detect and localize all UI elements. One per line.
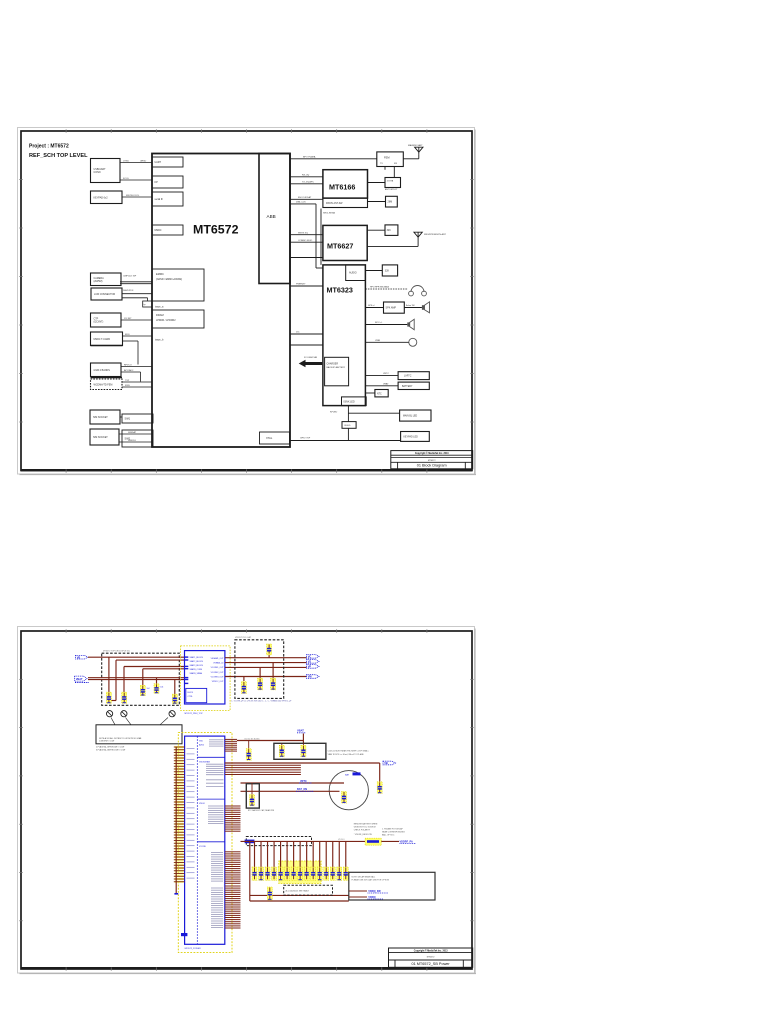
svg-text:MT6323: MT6323 <box>327 286 353 295</box>
svg-text:MSDC T-CARD: MSDC T-CARD <box>94 338 111 341</box>
off-page connector VDDIO out <box>349 890 388 893</box>
port box SENSOR IF <box>152 192 183 206</box>
svg-text:3.PLACE AL_MMTSCODE < 0.5W: 3.PLACE AL_MMTSCODE < 0.5W <box>96 748 125 751</box>
capacitor CB3 <box>265 867 270 880</box>
wire U1 to MT6323 b <box>290 332 323 334</box>
label VRTC <box>299 780 312 783</box>
svg-text:FEM: FEM <box>384 155 389 159</box>
page 2 title block <box>389 948 473 967</box>
connector keypad block <box>91 191 123 204</box>
svg-text:SIM1: SIM1 <box>125 418 131 421</box>
off-page connector VPROC out <box>307 665 320 669</box>
resistor box R LED <box>342 422 356 429</box>
port box SIM1 <box>122 414 153 423</box>
connector RF FEM dashed <box>91 378 123 390</box>
cap values dashed box <box>284 885 333 895</box>
wire J1 to KP <box>120 178 152 180</box>
svg-text:VRTC: VRTC <box>300 780 307 783</box>
svg-text:I2C INT: I2C INT <box>124 318 132 320</box>
wire cap bank drop 6 <box>286 841 288 868</box>
wire U1 to MT6323 a <box>290 284 323 286</box>
wire ABB to FEM <box>290 155 377 159</box>
connector SIM1 socket <box>90 410 120 424</box>
wire cap bank drop 10 <box>312 841 314 868</box>
wire cap C6 up <box>268 645 270 657</box>
svg-text:MT6572 TOP DECOUPLE (V): MT6572 TOP DECOUPLE (V) <box>103 651 130 653</box>
input filter dashed box <box>102 651 180 706</box>
capacitor C4 <box>154 684 163 694</box>
svg-text:ABB: ABB <box>267 214 276 219</box>
resistor R1 bottom left of U11 <box>181 933 187 936</box>
svg-text:MT6166: MT6166 <box>329 183 355 192</box>
port box UART <box>152 157 183 167</box>
wire VRTC <box>241 782 345 784</box>
wire FEM 2 <box>122 385 152 387</box>
svg-text:RLED: RLED <box>345 425 351 427</box>
wire cap bank drop 13 <box>332 841 334 868</box>
svg-text:DBI/DPI IF: DBI/DPI IF <box>123 290 134 292</box>
crystal X1 26MHz <box>386 196 398 207</box>
svg-text:AVDD: AVDD <box>199 743 205 746</box>
wire U11 right stubs group1 <box>225 739 237 751</box>
svg-text:VBAT: VBAT <box>76 677 83 681</box>
capacitor C3 <box>140 685 149 695</box>
connector LCM <box>91 288 122 300</box>
capacitor CB13 <box>330 867 335 880</box>
wire cap drop 1b <box>110 660 116 700</box>
svg-text:REF_SCH TOP LEVEL: REF_SCH TOP LEVEL <box>29 153 88 159</box>
wire PMIC to RTC <box>365 373 398 375</box>
svg-text:BACKUP-BATTERY: BACKUP-BATTERY <box>327 366 346 369</box>
PMIC audio sub-block <box>346 265 366 281</box>
svg-text:2G PA: 2G PA <box>387 180 394 183</box>
U11 right pin names group4 <box>211 853 223 928</box>
svg-text:C10/C11 MUST NEAR PIN, KEEP LO: C10/C11 MUST NEAR PIN, KEEP LOOP SMALL <box>328 750 369 753</box>
bulk cap box <box>274 743 326 759</box>
svg-text:(I2C/INT): (I2C/INT) <box>94 321 104 324</box>
svg-text:RFVCO: RFVCO <box>124 364 132 366</box>
svg-text:VDDIO: VDDIO <box>338 839 345 841</box>
capacitor C12 <box>246 741 251 761</box>
main backlight LED box <box>400 410 431 421</box>
wire cap bank drop 4 <box>273 841 275 868</box>
svg-text:HPL/HPR MICBIAS: HPL/HPR MICBIAS <box>370 286 390 289</box>
svg-text:NTC: NTC <box>377 393 382 395</box>
wire SIM2 a <box>119 431 152 434</box>
svg-text:GPIO / KP: GPIO / KP <box>300 438 311 440</box>
charger input arrow <box>299 357 323 367</box>
note text under RTC box <box>248 809 275 812</box>
svg-text:USING EXT DC SOURCE: USING EXT DC SOURCE <box>354 827 377 829</box>
off-page connector VM out <box>307 675 320 679</box>
svg-text:KEYPAD 6x2: KEYPAD 6x2 <box>94 196 109 199</box>
svg-text:8ohm 1W: 8ohm 1W <box>406 305 415 307</box>
receiver amp box <box>384 302 405 313</box>
wire cap bank drop 8 <box>299 841 301 868</box>
bus MT6166 to MT6627 vertical <box>290 202 335 269</box>
svg-text:SIM SOCKET: SIM SOCKET <box>93 416 108 419</box>
wire SIM2 b <box>119 440 152 442</box>
svg-text:VCORE: VCORE <box>199 846 206 848</box>
U11 right pin names group3 <box>208 806 224 824</box>
svg-text:VM: VM <box>308 675 312 679</box>
svg-text:EMMC: EMMC <box>156 272 164 276</box>
note text below box <box>96 745 125 751</box>
wire cap C9 drop <box>272 663 274 678</box>
svg-text:VCORE2_OUT: VCORE2_OUT <box>211 672 225 674</box>
connector MSDC card <box>91 332 123 346</box>
wire cap drop 5 <box>174 680 176 695</box>
wire cap bank drop 15 <box>345 841 347 868</box>
speaker icon loud <box>422 302 430 313</box>
wire U10 out3 <box>225 666 307 668</box>
svg-text:URXD: URXD <box>140 160 147 162</box>
capacitor CB6 <box>285 867 290 880</box>
svg-text:26M_CLK: 26M_CLK <box>296 202 306 204</box>
antenna ANT1 main <box>408 144 423 154</box>
svg-text:VBATB_SRAM: VBATB_SRAM <box>190 672 203 675</box>
svg-text:COMBO SDIO: COMBO SDIO <box>298 240 313 242</box>
svg-text:MT6572_POWER: MT6572_POWER <box>185 948 202 950</box>
testpoint TP2 <box>121 711 131 725</box>
wire bank left down <box>249 841 251 901</box>
svg-text:BSI CLK/DAT: BSI CLK/DAT <box>298 196 312 199</box>
wire cap drop 4 <box>156 678 158 684</box>
wire branch to main LED <box>348 412 399 414</box>
svg-text:(2M/5M): (2M/5M) <box>94 280 103 283</box>
svg-text:WIFI/BT/FM/GPS ANT: WIFI/BT/FM/GPS ANT <box>424 233 447 236</box>
connector camera <box>91 273 122 286</box>
svg-text:NOTE:A VIO ALL DUTIES TO 0.8/T: NOTE:A VIO ALL DUTIES TO 0.8/T&/TD NO VI… <box>99 737 142 740</box>
wire cap bank drop 2 <box>260 841 262 868</box>
wire bank bottom b <box>250 900 349 902</box>
off-page connector VSRAM out <box>307 660 320 664</box>
XTAL box inside U1 <box>260 432 290 444</box>
off-page connector VSYS in <box>75 676 90 682</box>
svg-text:VDDIO: VDDIO <box>199 803 206 805</box>
svg-text:(NAND / EMMC+DRAM): (NAND / EMMC+DRAM) <box>156 278 182 281</box>
U11 right pin names group1 <box>209 740 224 746</box>
wire GPS 2 <box>121 369 141 382</box>
svg-text:UTXD: UTXD <box>123 160 129 162</box>
page 1 title block <box>391 451 473 469</box>
capacitor CB1 <box>252 867 257 880</box>
wire VB to U10 pin1 <box>88 656 185 658</box>
wire ABB to MT6627 b <box>290 240 323 242</box>
wire U11 right stubs group3 <box>225 806 241 831</box>
svg-text:KPLED: KPLED <box>330 411 338 413</box>
wire PMIC to spk amp <box>365 305 383 307</box>
svg-text:RXN: RXN <box>125 385 130 387</box>
wire battery drop <box>379 763 381 782</box>
svg-text:KCOL: KCOL <box>123 178 130 180</box>
capacitor C8 <box>258 678 263 690</box>
wire camera 1 <box>120 275 152 281</box>
IC U11 MT6572 power pins <box>185 736 225 944</box>
page 1 drawing border <box>19 129 474 473</box>
wire PMIC to receiver <box>365 322 407 324</box>
capacitor CB11 <box>317 867 322 880</box>
svg-text:TXP: TXP <box>125 380 130 382</box>
wire ABB to MT6627 c <box>290 257 323 259</box>
wire cap drop 1 <box>108 657 110 692</box>
wire PMIC to NTC <box>365 392 375 394</box>
svg-text:ALL 0402/0201 SEE TABLE: ALL 0402/0201 SEE TABLE <box>286 890 310 893</box>
svg-text:104: 104 <box>147 688 150 690</box>
IC U1 MT6572 main block <box>152 154 290 448</box>
capacitor CB15 <box>343 867 348 880</box>
connector SIM2 socket <box>90 429 119 445</box>
testpoint TP3 <box>160 711 175 725</box>
wire LCM 2 <box>122 298 148 301</box>
wire PMIC to headset <box>365 286 408 289</box>
wire U11 right stubs group5 <box>225 886 241 928</box>
caption cap list blue <box>231 700 292 703</box>
battery circle BT1 <box>329 771 368 810</box>
svg-text:SPK AMP: SPK AMP <box>386 307 397 310</box>
edge box JTAG <box>143 301 152 307</box>
wire ABB to MT6166 c <box>290 196 323 199</box>
svg-text:1. PLEASE PUT DECAP: 1. PLEASE PUT DECAP <box>382 827 404 830</box>
decoupling bank highlight <box>279 861 321 884</box>
svg-text:AUDIO: AUDIO <box>349 272 357 275</box>
wire cap bank drop 9 <box>306 841 308 868</box>
svg-text:VBAT1_BUCKS: VBAT1_BUCKS <box>190 656 204 659</box>
wire U11 to VBAT box <box>237 740 303 742</box>
off-page connector VCORE out <box>307 655 320 659</box>
wire MT6166 to PA <box>368 182 386 184</box>
svg-text:ISINK LED: ISINK LED <box>344 401 355 403</box>
page 1 sheet <box>18 128 477 475</box>
off-page connector VCHG <box>383 761 396 765</box>
svg-text:SIM SOCKET: SIM SOCKET <box>93 436 108 439</box>
wire cap C8 drop <box>259 667 261 678</box>
wire J1 to UART <box>120 160 152 162</box>
wire ABB to MT6627 a <box>290 232 323 234</box>
svg-text:01 Block Diagram: 01 Block Diagram <box>417 464 447 468</box>
receiver icon <box>407 319 414 330</box>
IC U3 MT6627 connectivity <box>323 225 367 260</box>
note text right of bulk caps <box>328 750 369 756</box>
wire LED driver down <box>330 406 348 422</box>
capacitor C2 <box>122 692 127 703</box>
note box power domains <box>349 872 435 900</box>
wire MT6627 to ANT2 <box>367 240 418 247</box>
U11 left inner pin numbers <box>187 749 195 879</box>
title text Project MT6572 <box>29 144 88 160</box>
svg-text:BPI / PDATA: BPI / PDATA <box>303 155 316 158</box>
svg-text:TX_I/Q APC: TX_I/Q APC <box>302 180 314 183</box>
capacitor C5 <box>172 694 177 704</box>
svg-text:01 MT6572_SB Power: 01 MT6572_SB Power <box>411 962 450 966</box>
wire MSDC 2 <box>123 341 139 365</box>
svg-text:SIMCLK: SIMCLK <box>128 440 137 442</box>
svg-text:VSRAM_LD: VSRAM_LD <box>213 662 224 665</box>
svg-text:LI-RTC: LI-RTC <box>404 376 412 378</box>
capacitor C7 <box>241 682 246 694</box>
wire keypad <box>122 195 152 197</box>
svg-text:XTAL: XTAL <box>266 436 273 440</box>
svg-text:VBAT: VBAT <box>297 729 304 733</box>
svg-text:RXDIV ANT-SW: RXDIV ANT-SW <box>326 202 343 205</box>
wire cap bank drop 1 <box>254 841 256 868</box>
svg-text:RX_I/Q: RX_I/Q <box>302 174 309 176</box>
svg-text:VBAT3_BUCKS: VBAT3_BUCKS <box>190 664 204 667</box>
capacitor C11 <box>301 743 306 757</box>
capacitor C10 <box>279 743 284 757</box>
wire U11 right bus group2 <box>225 765 301 774</box>
capacitor C13 in battery <box>342 792 347 804</box>
wire U1 to MT6323 c <box>290 344 323 346</box>
svg-text:REMOVE BATTERY WHEN: REMOVE BATTERY WHEN <box>354 823 378 826</box>
wire camera 2 <box>120 283 152 285</box>
svg-text:SIMDAT: SIMDAT <box>128 431 137 434</box>
svg-text:VDD: VDD <box>199 741 204 743</box>
port box EMMC memory <box>152 269 204 301</box>
note box <box>96 725 182 744</box>
svg-text:VP: VP <box>308 665 312 669</box>
svg-text:MAIN BL LED: MAIN BL LED <box>403 415 418 418</box>
capacitor CB8 <box>298 867 303 880</box>
wire FEM vertical b <box>393 167 395 178</box>
svg-text:MAIN/DIV ANT: MAIN/DIV ANT <box>408 144 423 147</box>
wire net4 to U10 <box>143 668 185 670</box>
capacitor CB10 <box>311 867 316 880</box>
svg-text:ANT DETECT: ANT DETECT <box>385 188 398 191</box>
port box LPDDR <box>152 310 204 328</box>
wire VBAT drop to box <box>302 734 304 744</box>
wire R LED down to bus <box>347 428 349 440</box>
svg-text:BUCK: BUCK <box>188 692 194 694</box>
page 2 drawing border <box>19 629 474 971</box>
svg-text:RX: RX <box>394 163 398 165</box>
port box KEYPAD <box>152 176 183 188</box>
svg-text:UART: UART <box>155 161 162 164</box>
svg-text:2.PLACE AL_MPDECIDE < 0.5W: 2.PLACE AL_MPDECIDE < 0.5W <box>96 745 124 748</box>
svg-text:MT6627: MT6627 <box>327 242 353 251</box>
PA module box <box>385 178 401 192</box>
svg-text:MT6572: MT6572 <box>193 222 239 236</box>
svg-text:RTC BACKUP CAP, NEAR PIN: RTC BACKUP CAP, NEAR PIN <box>248 809 275 812</box>
capacitor CB4 <box>272 867 277 880</box>
svg-text:WCDMA/TD FEM: WCDMA/TD FEM <box>94 383 113 386</box>
svg-text:trace_b: trace_b <box>155 339 164 342</box>
wire BATON <box>241 790 340 792</box>
page 2 sheet <box>18 627 477 974</box>
svg-text:trace_a: trace_a <box>155 306 164 309</box>
wire CTP <box>121 318 152 320</box>
wire ABB to MT6166 b <box>290 180 323 183</box>
capacitor C15 <box>250 783 255 806</box>
svg-text:VBATB_CORE: VBATB_CORE <box>190 668 203 671</box>
svg-text:APC/AFC: APC/AFC <box>124 369 134 372</box>
svg-text:* VDDRF_PA ROUTE: * VDDRF_PA ROUTE <box>354 833 373 836</box>
label U11 refdes <box>185 948 202 950</box>
svg-text:NOTE: DECAP NEAR BALL: NOTE: DECAP NEAR BALL <box>352 875 376 878</box>
inductor L1 <box>365 838 381 845</box>
wire GPS 1 <box>121 364 152 366</box>
wire U11 right stubs group4 <box>225 852 241 884</box>
U11 right pin names group2 <box>206 764 224 786</box>
wire LCM 1 <box>122 290 152 294</box>
svg-text:MSDC: MSDC <box>155 229 162 232</box>
wire cap bank drop 5 <box>280 841 282 868</box>
svg-text:Copyright © MediaTek Inc. 2013: Copyright © MediaTek Inc. 2013 <box>415 452 449 455</box>
RTC crystal box <box>382 265 397 276</box>
svg-text:VB: VB <box>77 655 81 659</box>
capacitor C9 <box>271 678 276 690</box>
wire MT6166 to X1 <box>368 201 386 203</box>
TCXO box <box>385 225 398 236</box>
svg-text:GSM 2 BANDS: GSM 2 BANDS <box>94 369 111 372</box>
wire PMIC to battery <box>365 382 398 385</box>
note text battery right <box>354 823 378 832</box>
wire MSDC 1 <box>123 334 153 336</box>
wire VSYS right run <box>225 762 380 764</box>
IC U10 PMU top highlight <box>181 646 231 711</box>
svg-text:Copyright © MediaTek Inc. 2013: Copyright © MediaTek Inc. 2013 <box>414 950 448 953</box>
capacitor CB2 <box>259 867 264 880</box>
svg-text:BATTERY: BATTERY <box>402 385 413 388</box>
svg-text:B1 B2 B3 B4/B5: B1 B2 B3 B4/B5 <box>245 738 261 740</box>
svg-text:C.. VCORE_pF 0.1 uF/6.3V X5: C.. VCORE_pF 0.1 uF/6.3V X5R 0402 C.. C.… <box>231 700 292 703</box>
svg-text:MT6572: MT6572 <box>427 957 435 959</box>
wire SIM1 <box>120 416 122 418</box>
svg-text:CONN: CONN <box>94 171 101 174</box>
node U11 left rail terminal <box>174 893 178 895</box>
svg-text:BALL OF SOC: BALL OF SOC <box>382 833 395 836</box>
svg-text:CHARGER: CHARGER <box>327 363 339 366</box>
svg-text:VC: VC <box>308 655 312 659</box>
wire net2 to U10 <box>116 659 185 661</box>
svg-text:DRAM: DRAM <box>156 313 164 317</box>
wire VIO rail <box>241 840 366 842</box>
capacitor CB7 <box>291 867 296 880</box>
wire MT6627 to TCXO <box>367 229 385 231</box>
svg-text:KEYPAD LED: KEYPAD LED <box>404 436 419 439</box>
off-page connector VBAT top <box>297 729 306 733</box>
svg-text:CMPCLK ISP: CMPCLK ISP <box>123 275 137 277</box>
svg-text:VRTC: VRTC <box>383 373 389 375</box>
IC U11 highlight outline <box>178 733 232 953</box>
IC U4 MT6323 PMIC <box>323 265 366 406</box>
note text top of bank <box>382 827 405 836</box>
wire U10 out2 <box>225 662 307 664</box>
capacitor CB9 <box>304 867 309 880</box>
wire U11 left rail <box>175 747 177 894</box>
output filter dashed box <box>235 636 284 698</box>
svg-text:VS: VS <box>308 660 312 664</box>
capacitor CB5 <box>278 867 283 880</box>
charger sub-block <box>325 357 349 386</box>
off-page connector VDD2 out <box>349 896 383 899</box>
svg-text:KROW KCOL: KROW KCOL <box>126 195 140 197</box>
wire amp to speaker <box>404 305 422 307</box>
port box MSDC <box>152 225 183 235</box>
svg-text:VBAT: VBAT <box>383 382 389 385</box>
wire FEM 1 <box>122 380 152 382</box>
capacitor C1 <box>106 692 111 703</box>
svg-text:PLEASE USE X5R CAP, DNS FOR OP: PLEASE USE X5R CAP, DNS FOR OPTION <box>352 879 390 882</box>
wire cap bank drop 3 <box>267 841 269 868</box>
IC U2 MT6166 RF transceiver <box>323 170 368 208</box>
port box SIM2 <box>122 430 153 447</box>
svg-text:VDDRF_PA: VDDRF_PA <box>400 841 413 844</box>
label balls on wire <box>245 738 261 740</box>
svg-text:SPK+/-: SPK+/- <box>368 305 375 307</box>
antenna ANT2 wifi <box>414 232 447 239</box>
label BATON <box>296 788 314 791</box>
